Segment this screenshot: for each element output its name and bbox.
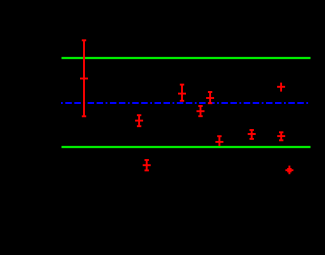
data point P8: x=251.7, y=134.0, errorbar 130.0..138.9 <box>248 130 256 139</box>
data point P7: x=219.4, y=141.9, errorbar 136.2..146.0 <box>215 136 223 146</box>
lower green horizontal line <box>62 146 311 148</box>
data point P11: plus marker with small errorbar x=289.4, y=170.2 <box>285 166 293 175</box>
data point P1: x=84, y=78.5, errorbar 40.3..116.3 <box>80 40 88 116</box>
data point P3: x=146.7, y=165.2, errorbar 160.0..170.4 <box>143 160 151 170</box>
data point P6: x=210.1, y=98.0, errorbar 92.0..103.2 <box>206 92 214 103</box>
data point P2: x=139, y=120.6, errorbar 115.2..126.2 <box>135 115 143 126</box>
data point P5: x=200.5, y=111.2, errorbar 106.0..116.2 <box>197 106 205 116</box>
data point P4: x=182, y=93.6, errorbar 84.6..100.8 <box>178 85 186 101</box>
data point P10: plus marker x=281.1, y=86.8 <box>277 83 285 92</box>
data point P9: x=281.2, y=136.1, errorbar 132.3..140.3 <box>277 132 285 140</box>
blue dash-dot horizontal line <box>61 102 309 104</box>
upper green horizontal line <box>62 57 311 59</box>
